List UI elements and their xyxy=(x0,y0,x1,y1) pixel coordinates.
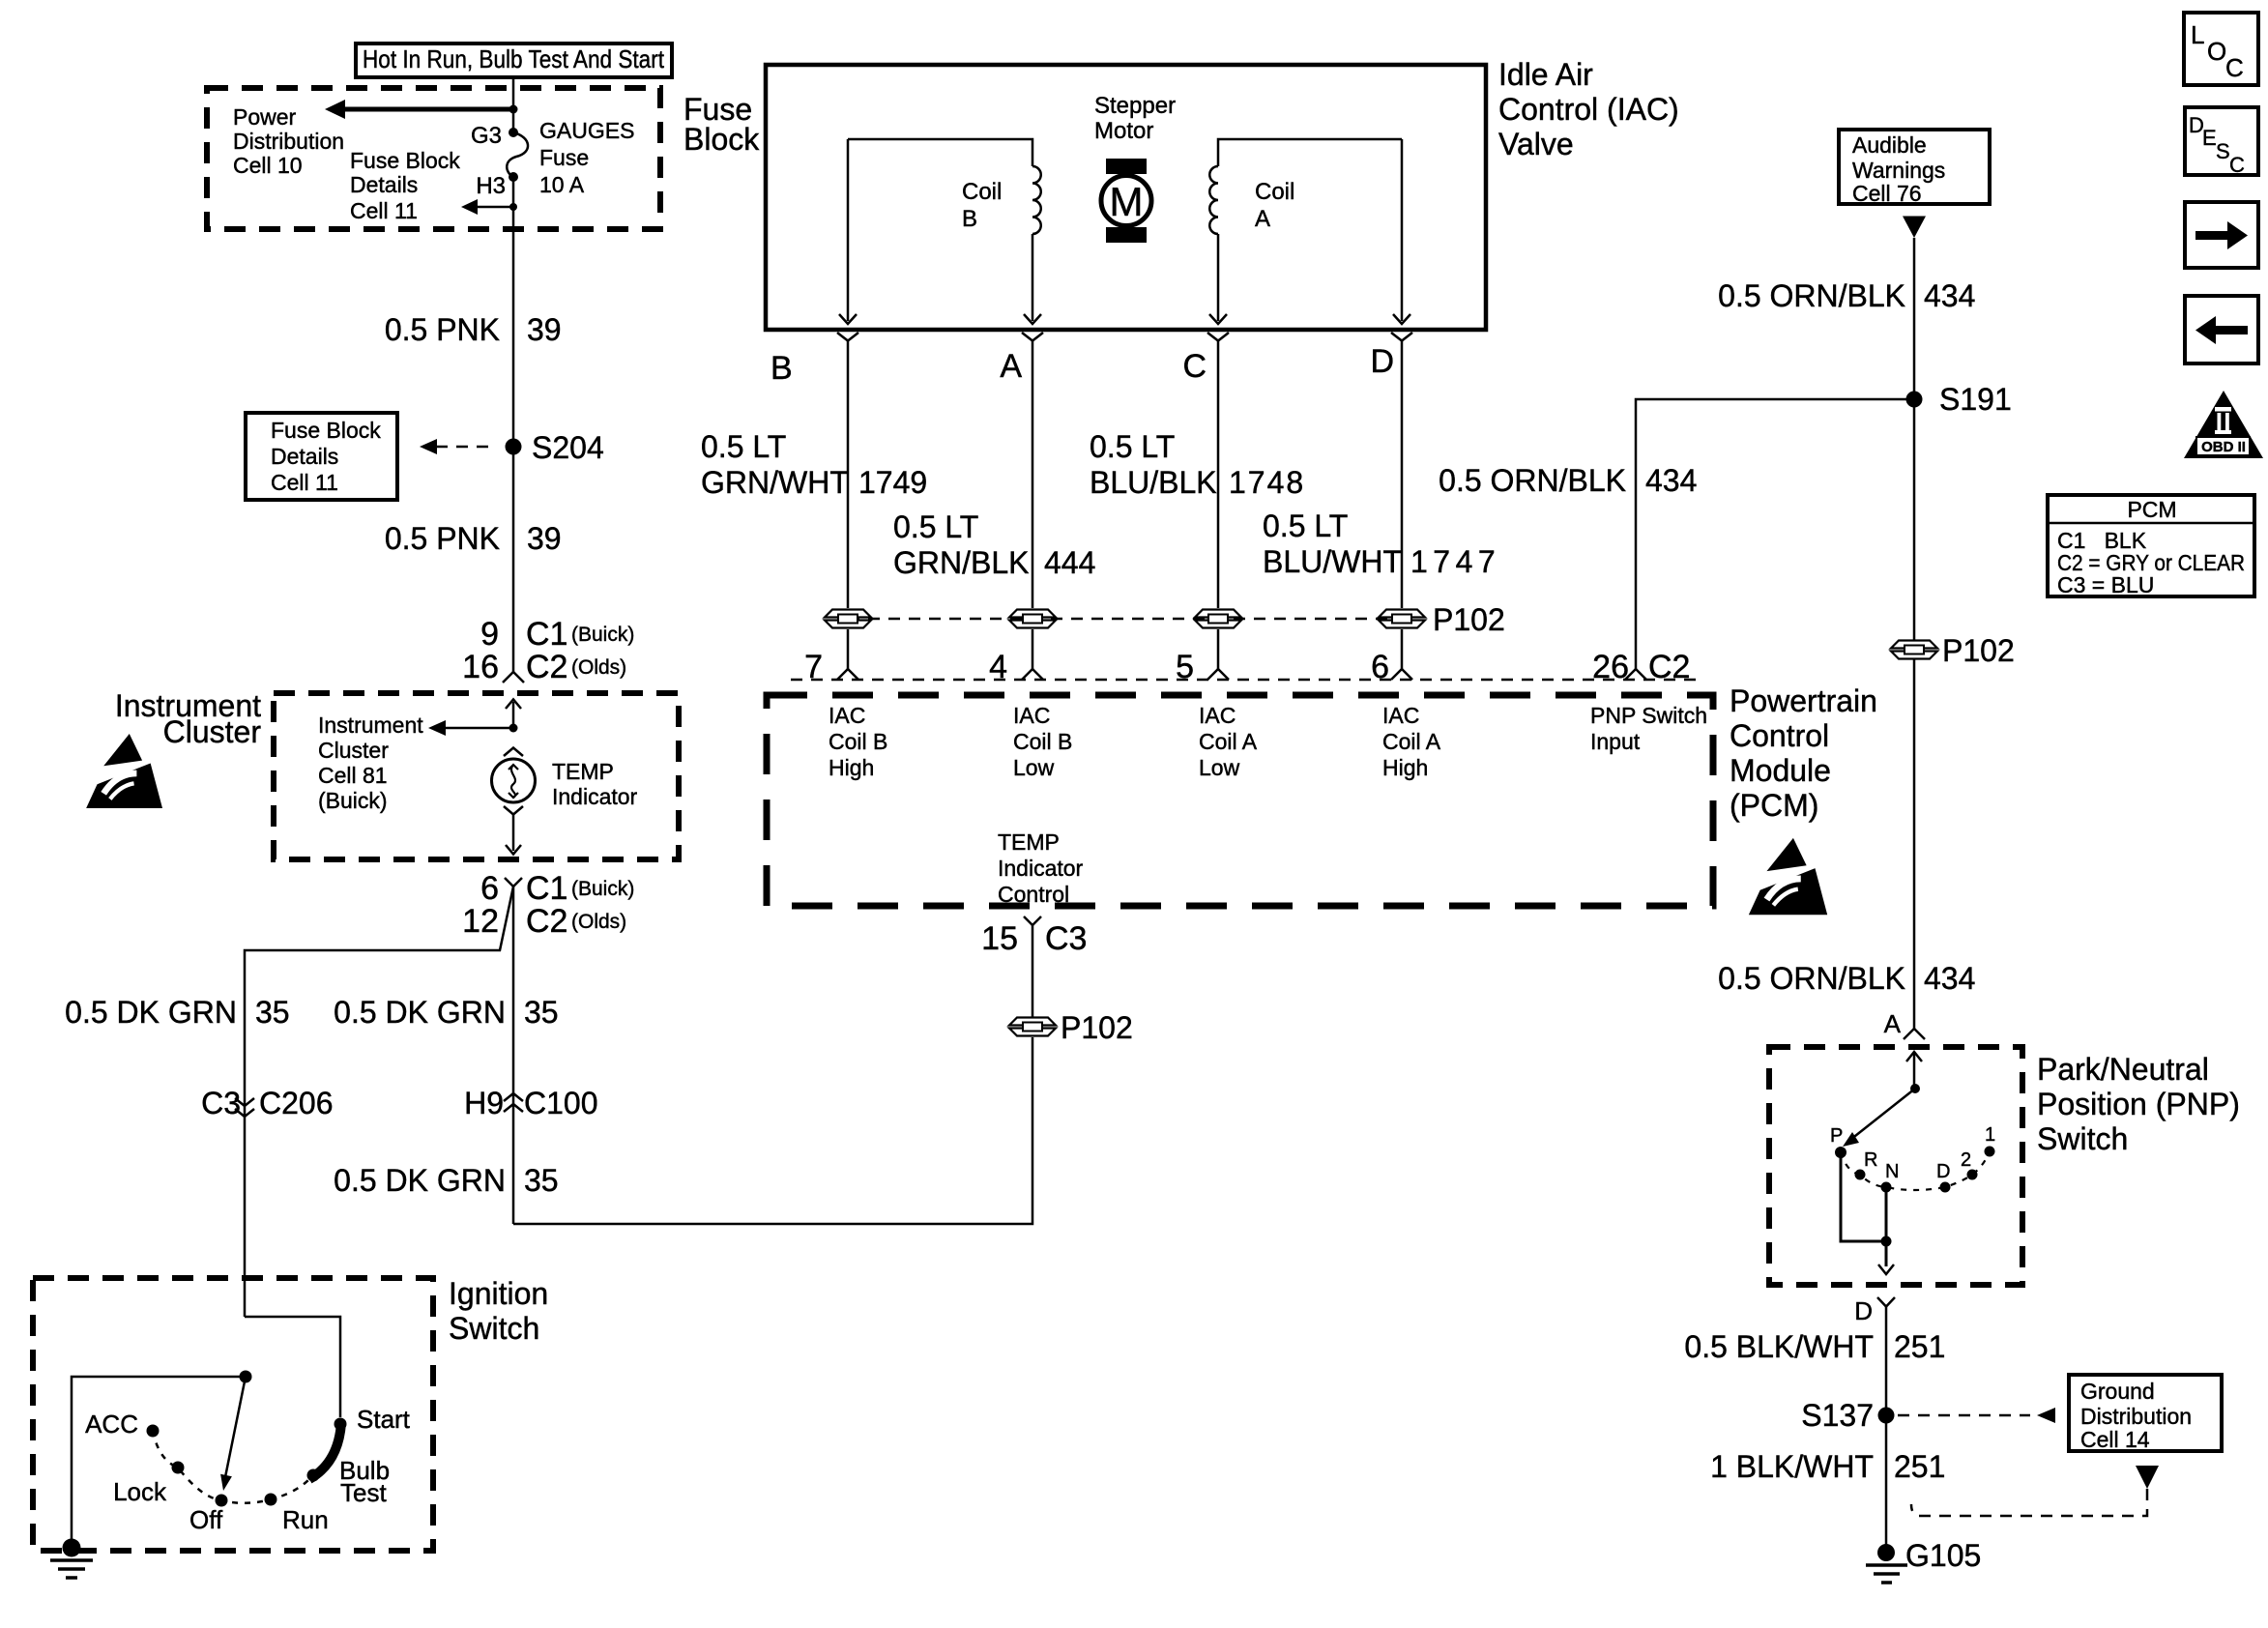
note Power Distribution Cell 10 xyxy=(233,104,344,178)
connector P102 on B xyxy=(825,610,871,628)
svg-text:0.5 LT: 0.5 LT xyxy=(701,429,786,464)
svg-text:Input: Input xyxy=(1590,729,1641,754)
pin 4 xyxy=(989,649,1043,685)
contact Off xyxy=(189,1495,228,1535)
label 0.5 ORN/BLK 434 (branch) xyxy=(1439,463,1697,498)
svg-text:C100: C100 xyxy=(524,1086,598,1120)
svg-text:N: N xyxy=(1885,1161,1899,1182)
connector P102 (below pin 15) xyxy=(1009,1010,1133,1045)
Audible Warnings Cell 76 box xyxy=(1839,130,1990,206)
svg-text:BLU/WHT: BLU/WHT xyxy=(1263,544,1402,579)
svg-text:Cluster: Cluster xyxy=(318,738,389,763)
svg-text:Indicator: Indicator xyxy=(998,856,1084,881)
label Idle Air Control (IAC) Valve xyxy=(1498,57,1679,161)
off-page arrow below Ground Distribution xyxy=(2136,1466,2159,1489)
label 1 BLK/WHT 251 xyxy=(1710,1449,1945,1484)
svg-text:1: 1 xyxy=(1985,1124,1995,1146)
pin 16 C2 (Olds) xyxy=(462,649,626,685)
svg-text:A: A xyxy=(1000,348,1022,385)
label Fuse Block xyxy=(683,92,760,157)
svg-text:IAC: IAC xyxy=(829,703,865,728)
wire below indicator xyxy=(512,815,515,833)
wire pivot to ground xyxy=(72,1377,246,1547)
pin 5 xyxy=(1176,649,1229,685)
male pin arrow up (into cluster) xyxy=(506,700,521,729)
Ground Distribution Cell 14 box xyxy=(2069,1375,2222,1452)
contact Bulb Test xyxy=(307,1456,391,1507)
svg-text:Coil B: Coil B xyxy=(1013,729,1072,754)
contact P xyxy=(1830,1125,1846,1158)
wire to PCM pin 15 (horizontal run) xyxy=(513,1037,1032,1224)
svg-text:Valve: Valve xyxy=(1498,127,1574,161)
svg-text:High: High xyxy=(1382,755,1428,780)
connector P102 (right wire) xyxy=(1891,633,2015,668)
label 0.5 LT BLU/WHT 1747 xyxy=(1263,509,1500,579)
wire D column xyxy=(1401,341,1404,609)
svg-text:6: 6 xyxy=(480,870,499,907)
dashed arrow S137 to Ground Distribution xyxy=(1898,1408,2055,1423)
svg-text:Indicator: Indicator xyxy=(552,784,638,809)
connector P102 on D xyxy=(1379,602,1505,637)
svg-text:0.5 ORN/BLK: 0.5 ORN/BLK xyxy=(1718,961,1905,996)
pin 26 C2 xyxy=(1592,649,1690,685)
svg-text:C1: C1 xyxy=(526,870,567,907)
svg-text:S: S xyxy=(2216,139,2230,163)
wire 0.5 PNK 39 (fuse to S204) xyxy=(512,177,515,447)
contact Start xyxy=(334,1405,411,1434)
stepper motor M xyxy=(1101,159,1151,243)
svg-text:C206: C206 xyxy=(259,1086,334,1120)
svg-text:35: 35 xyxy=(524,1163,559,1198)
pin 7 xyxy=(804,649,858,685)
svg-text:P: P xyxy=(1830,1125,1843,1147)
svg-text:H3: H3 xyxy=(476,173,506,199)
svg-text:39: 39 xyxy=(527,312,562,347)
svg-text:Block: Block xyxy=(683,122,760,157)
svg-text:O: O xyxy=(2207,37,2226,66)
svg-text:TEMP: TEMP xyxy=(552,759,614,784)
svg-text:35: 35 xyxy=(255,995,290,1030)
net IAC Coil B Low xyxy=(1013,703,1072,780)
pin B of IAC xyxy=(771,333,858,387)
svg-text:H9: H9 xyxy=(464,1086,504,1120)
svg-text:434: 434 xyxy=(1924,278,1975,313)
svg-text:M: M xyxy=(1110,179,1144,224)
svg-text:C2: C2 xyxy=(526,903,567,940)
dashed contact arc xyxy=(153,1431,311,1503)
svg-text:Control (IAC): Control (IAC) xyxy=(1498,92,1679,127)
label 0.5 BLK/WHT 251 xyxy=(1684,1329,1945,1364)
svg-text:Control: Control xyxy=(1730,718,1829,753)
switch pivot xyxy=(240,1371,252,1383)
splice S191 xyxy=(1906,382,2012,417)
svg-text:Powertrain: Powertrain xyxy=(1730,683,1877,718)
svg-text:Fuse Block: Fuse Block xyxy=(350,148,460,173)
contact R xyxy=(1855,1149,1878,1180)
note Fuse Block Details Cell 11 (inside fuse box) xyxy=(350,148,460,223)
svg-text:2: 2 xyxy=(1961,1149,1971,1171)
svg-text:Coil B: Coil B xyxy=(829,729,887,754)
chevron below TEMP indicator xyxy=(504,806,523,815)
svg-text:PCM: PCM xyxy=(2127,497,2176,522)
svg-text:Details: Details xyxy=(271,444,338,469)
label 0.5 DK GRN 35 (below C100) xyxy=(334,1163,558,1198)
IAC valve box xyxy=(766,65,1486,330)
wire branch to left (diagonal + horizontal) xyxy=(245,887,513,1317)
LOC reference box xyxy=(2184,13,2258,85)
pin 9 C1 (Buick) xyxy=(480,616,634,653)
label 0.5 LT BLU/BLK 1748 xyxy=(1090,429,1305,500)
PNP switch arm to P xyxy=(1843,1089,1915,1147)
svg-text:ACC: ACC xyxy=(85,1410,138,1439)
ESD symbol (instrument cluster) xyxy=(86,734,162,808)
connector P102 on A xyxy=(1009,610,1056,628)
svg-text:10 A: 10 A xyxy=(539,172,585,197)
svg-text:0.5 PNK: 0.5 PNK xyxy=(385,312,500,347)
svg-text:Park/Neutral: Park/Neutral xyxy=(2037,1052,2209,1087)
male pin arrow into PNP xyxy=(1906,1052,1922,1089)
svg-text:(PCM): (PCM) xyxy=(1730,788,1818,823)
label 0.5 DK GRN 35 (left branch) xyxy=(65,995,289,1030)
svg-text:Cell 10: Cell 10 xyxy=(233,153,303,178)
label Park/Neutral Position (PNP) Switch xyxy=(2037,1052,2240,1156)
svg-text:(Buick): (Buick) xyxy=(571,878,634,900)
svg-text:Module: Module xyxy=(1730,753,1831,788)
svg-text:BLU/BLK: BLU/BLK xyxy=(1090,465,1217,500)
svg-text:C3: C3 xyxy=(201,1086,241,1120)
wire C column xyxy=(1217,341,1220,609)
svg-text:1748: 1748 xyxy=(1229,465,1305,500)
svg-text:(Olds): (Olds) xyxy=(571,656,626,679)
svg-text:Audible: Audible xyxy=(1852,132,1927,158)
svg-text:C: C xyxy=(2229,153,2245,177)
label 0.5 ORN/BLK 434 xyxy=(1718,278,1975,313)
svg-text:G105: G105 xyxy=(1905,1538,1981,1573)
svg-text:0.5 LT: 0.5 LT xyxy=(1090,429,1175,464)
svg-text:15: 15 xyxy=(981,920,1018,957)
dashed arc PNP contacts xyxy=(1841,1151,1990,1190)
svg-text:IAC: IAC xyxy=(1199,703,1236,728)
svg-text:12: 12 xyxy=(462,903,499,940)
svg-text:High: High xyxy=(829,755,874,780)
ground (ignition switch) xyxy=(50,1539,93,1579)
wire 0.5 BLK/WHT 251 xyxy=(1885,1307,1888,1548)
svg-text:Low: Low xyxy=(1013,755,1055,780)
svg-text:P102: P102 xyxy=(1433,602,1505,637)
pin 6 C1 (Buick) xyxy=(480,870,634,907)
arrow to Fuse Block Details xyxy=(461,199,517,215)
pin 12 C2 (Olds) xyxy=(462,903,626,940)
svg-text:Details: Details xyxy=(350,172,418,197)
svg-text:Hot In Run, Bulb Test And Star: Hot In Run, Bulb Test And Start xyxy=(363,44,665,73)
svg-text:Motor: Motor xyxy=(1094,118,1153,144)
label 0.5 PNK 39 xyxy=(385,312,562,347)
svg-text:35: 35 xyxy=(524,995,559,1030)
dashed wire from Ground Distribution xyxy=(1911,1489,2147,1516)
svg-text:Switch: Switch xyxy=(449,1311,539,1346)
junction dot xyxy=(509,724,518,733)
TEMP indicator gauge xyxy=(492,759,638,809)
svg-text:C: C xyxy=(1182,348,1207,385)
svg-text:Coil A: Coil A xyxy=(1199,729,1258,754)
svg-text:Coil: Coil xyxy=(962,179,1002,205)
pin D of PNP xyxy=(1854,1296,1895,1325)
Fuse Block Details Cell 11 box xyxy=(246,413,397,500)
svg-text:5: 5 xyxy=(1176,649,1194,685)
label Powertrain Control Module (PCM) xyxy=(1730,683,1877,823)
svg-text:9: 9 xyxy=(480,616,499,653)
net PNP Switch Input xyxy=(1590,703,1707,754)
svg-text:GRN/WHT: GRN/WHT xyxy=(701,465,849,500)
svg-text:IAC: IAC xyxy=(1013,703,1050,728)
svg-text:Cell 81: Cell 81 xyxy=(318,763,388,788)
title box: Hot In Run, Bulb Test And Start xyxy=(356,44,672,77)
svg-text:Cell 14: Cell 14 xyxy=(2080,1427,2150,1452)
coil A xyxy=(1209,139,1410,324)
net IAC Coil A Low xyxy=(1199,703,1258,780)
svg-text:Switch: Switch xyxy=(2037,1121,2128,1156)
fuse GAUGES 10 A xyxy=(471,118,634,199)
svg-text:Instrument: Instrument xyxy=(318,712,423,738)
male pin arrow down (out of cluster) xyxy=(506,832,521,855)
contact N xyxy=(1881,1161,1900,1193)
svg-text:B: B xyxy=(771,350,793,387)
svg-text:C2: C2 xyxy=(526,649,567,685)
wire P contact to output xyxy=(1841,1152,1886,1241)
pin D of IAC xyxy=(1370,333,1412,380)
svg-text:Start: Start xyxy=(357,1405,411,1434)
svg-text:TEMP: TEMP xyxy=(998,829,1060,855)
svg-text:434: 434 xyxy=(1645,463,1697,498)
svg-text:0.5 ORN/BLK: 0.5 ORN/BLK xyxy=(1718,278,1905,313)
coil B xyxy=(839,139,1041,324)
svg-text:S191: S191 xyxy=(1939,382,2012,417)
svg-text:P102: P102 xyxy=(1061,1010,1133,1045)
svg-text:Run: Run xyxy=(282,1505,329,1534)
svg-text:1 BLK/WHT: 1 BLK/WHT xyxy=(1710,1449,1874,1484)
svg-text:4: 4 xyxy=(989,649,1007,685)
splice S204 xyxy=(506,430,604,465)
wire 0.5 PNK 39 (S204 to cluster) xyxy=(512,447,515,672)
label 0.5 PNK 39 second xyxy=(385,521,562,556)
wire N contact down xyxy=(1885,1187,1888,1266)
net IAC Coil A High xyxy=(1382,703,1441,780)
svg-text:7: 7 xyxy=(804,649,823,685)
svg-text:A: A xyxy=(1255,206,1270,232)
svg-text:39: 39 xyxy=(527,521,562,556)
pin A of IAC xyxy=(1000,333,1043,385)
svg-text:G3: G3 xyxy=(471,123,502,149)
svg-text:Distribution: Distribution xyxy=(233,129,344,154)
off-page arrow from Audible Warnings xyxy=(1903,217,1926,239)
svg-text:IAC: IAC xyxy=(1382,703,1419,728)
svg-text:C: C xyxy=(2225,53,2244,82)
svg-text:GAUGES: GAUGES xyxy=(539,118,634,143)
svg-text:(Buick): (Buick) xyxy=(571,624,634,646)
splice S137 xyxy=(1801,1398,1894,1433)
label 0.5 LT GRN/BLK 444 xyxy=(893,509,1095,580)
ESD symbol (PCM) xyxy=(1749,838,1827,915)
contact ACC xyxy=(85,1410,159,1439)
label Stepper Motor xyxy=(1094,93,1176,144)
svg-text:Distribution: Distribution xyxy=(2080,1404,2192,1429)
svg-text:Cluster: Cluster xyxy=(163,714,262,749)
svg-text:0.5 DK GRN: 0.5 DK GRN xyxy=(65,995,237,1030)
pin 15 C3 xyxy=(981,916,1087,957)
svg-text:D: D xyxy=(1854,1296,1873,1325)
svg-text:Fuse: Fuse xyxy=(539,145,589,170)
thick arc Bulb Test to Start xyxy=(309,1423,341,1479)
svg-text:D: D xyxy=(1370,343,1394,380)
PCM dashed box xyxy=(767,695,1713,906)
svg-text:251: 251 xyxy=(1894,1329,1945,1364)
junction dot xyxy=(1881,1236,1892,1247)
svg-text:Off: Off xyxy=(189,1505,223,1534)
svg-text:S137: S137 xyxy=(1801,1398,1874,1433)
wire branch S191 to pin 26 xyxy=(1636,399,1907,669)
wire P102 to PNP switch xyxy=(1913,659,1916,1029)
svg-text:C3 = BLU: C3 = BLU xyxy=(2057,572,2154,597)
svg-text:0.5 BLK/WHT: 0.5 BLK/WHT xyxy=(1684,1329,1874,1364)
label Ignition Switch xyxy=(449,1276,548,1346)
instrument cluster dashed box xyxy=(274,693,679,859)
svg-text:Ignition: Ignition xyxy=(449,1276,548,1311)
PCM connector legend box xyxy=(2048,495,2254,597)
svg-text:PNP Switch: PNP Switch xyxy=(1590,703,1707,728)
svg-text:Stepper: Stepper xyxy=(1094,93,1176,119)
svg-text:P102: P102 xyxy=(1942,633,2015,668)
svg-text:1749: 1749 xyxy=(858,465,927,500)
contact 1 xyxy=(1985,1124,1996,1157)
OBD II symbol xyxy=(2184,391,2263,458)
svg-text:B: B xyxy=(962,206,977,232)
svg-text:S204: S204 xyxy=(532,430,604,465)
arrow to Instrument Cluster Cell 81 xyxy=(428,720,513,736)
svg-text:26: 26 xyxy=(1592,649,1629,685)
svg-text:0.5 PNK: 0.5 PNK xyxy=(385,521,500,556)
svg-text:GRN/BLK: GRN/BLK xyxy=(893,545,1029,580)
dashed arrow S204 to details box xyxy=(420,439,488,454)
svg-text:C3: C3 xyxy=(1045,920,1087,957)
fuse block dashed box xyxy=(207,88,660,229)
wire into ignition switch to Start contact xyxy=(245,1317,340,1417)
svg-text:Position (PNP): Position (PNP) xyxy=(2037,1087,2240,1121)
PCM connector face dashed line xyxy=(791,679,1701,682)
label 0.5 DK GRN 35 (right branch) xyxy=(334,995,558,1030)
svg-text:0.5 DK GRN: 0.5 DK GRN xyxy=(334,995,506,1030)
right arrow box xyxy=(2185,202,2258,268)
svg-text:C2: C2 xyxy=(1648,649,1690,685)
label 0.5 ORN/BLK 434 (lower) xyxy=(1718,961,1975,996)
svg-text:Control: Control xyxy=(998,882,1069,907)
svg-text:Low: Low xyxy=(1199,755,1240,780)
wire A column xyxy=(1032,341,1034,609)
PNP pivot xyxy=(1910,1084,1920,1093)
chevron above TEMP indicator xyxy=(504,748,523,757)
svg-text:OBD II: OBD II xyxy=(2201,439,2246,455)
svg-text:Test: Test xyxy=(340,1478,387,1507)
contact 2 xyxy=(1961,1149,1978,1180)
svg-text:Coil A: Coil A xyxy=(1382,729,1441,754)
connector H9 C100 xyxy=(464,1086,597,1120)
switch arm arrow to Off xyxy=(220,1377,246,1491)
Instrument Cluster label xyxy=(115,688,262,749)
connector chevron at cluster top xyxy=(503,672,524,683)
svg-text:Warnings: Warnings xyxy=(1852,158,1945,183)
svg-text:434: 434 xyxy=(1924,961,1975,996)
svg-text:0.5 LT: 0.5 LT xyxy=(893,509,978,544)
pin C of IAC xyxy=(1182,333,1229,385)
net IAC Coil B High xyxy=(829,703,887,780)
PNP switch dashed box xyxy=(1769,1047,2022,1285)
svg-text:1747: 1747 xyxy=(1410,544,1500,579)
net TEMP Indicator Control xyxy=(998,829,1084,907)
svg-text:6: 6 xyxy=(1371,649,1389,685)
label 0.5 LT GRN/WHT 1749 xyxy=(701,429,927,500)
svg-text:D: D xyxy=(1936,1161,1950,1182)
svg-text:444: 444 xyxy=(1044,545,1095,580)
svg-text:C1: C1 xyxy=(526,616,567,653)
svg-text:16: 16 xyxy=(462,649,499,685)
svg-text:Idle Air: Idle Air xyxy=(1498,57,1593,92)
svg-text:L: L xyxy=(2191,20,2204,49)
wire B column xyxy=(847,341,850,609)
contact Lock xyxy=(113,1462,184,1507)
pin 6 xyxy=(1371,649,1412,685)
wire 0.5 ORN/BLK 434 (to S191) xyxy=(1913,238,1916,640)
svg-text:Power: Power xyxy=(233,104,297,130)
svg-text:Lock: Lock xyxy=(113,1477,167,1506)
wire down from pin 6 xyxy=(512,887,515,1224)
svg-text:R: R xyxy=(1864,1149,1877,1171)
ground G105 xyxy=(1866,1538,1981,1583)
svg-text:0.5 ORN/BLK: 0.5 ORN/BLK xyxy=(1439,463,1626,498)
connector C3 C206 xyxy=(201,1086,333,1120)
svg-text:Ground: Ground xyxy=(2080,1379,2155,1404)
svg-text:(Olds): (Olds) xyxy=(571,911,626,933)
arrow out of PNP xyxy=(1878,1265,1894,1274)
svg-text:Cell 11: Cell 11 xyxy=(271,470,338,495)
wires from P102 to PCM pins xyxy=(848,629,1402,669)
svg-text:E: E xyxy=(2202,126,2217,150)
svg-text:0.5 DK GRN: 0.5 DK GRN xyxy=(334,1163,506,1198)
arrow to Power Distribution xyxy=(325,100,518,119)
connector chevron below cluster xyxy=(505,878,522,887)
note Instrument Cluster Cell 81 (Buick) xyxy=(318,712,423,813)
svg-text:Coil: Coil xyxy=(1255,179,1294,205)
svg-text:251: 251 xyxy=(1894,1449,1945,1484)
Ignition Switch dashed box xyxy=(33,1278,433,1551)
contact D xyxy=(1936,1161,1951,1193)
contact Run xyxy=(265,1494,329,1535)
connector P102 on C xyxy=(1195,610,1241,628)
wire from title box into fuse block xyxy=(512,77,515,132)
pin A of PNP switch xyxy=(1884,1009,1925,1039)
connector P102 dashed row xyxy=(848,618,1402,621)
svg-text:0.5 LT: 0.5 LT xyxy=(1263,509,1348,543)
svg-text:(Buick): (Buick) xyxy=(318,788,388,813)
svg-text:Fuse Block: Fuse Block xyxy=(271,418,381,443)
svg-text:Cell 11: Cell 11 xyxy=(350,198,418,223)
DESC reference box xyxy=(2185,107,2258,177)
svg-text:Cell 76: Cell 76 xyxy=(1852,181,1922,206)
wire pin 15 to P102 xyxy=(1032,925,1034,1017)
left arrow box xyxy=(2185,296,2258,363)
svg-text:A: A xyxy=(1884,1009,1902,1038)
